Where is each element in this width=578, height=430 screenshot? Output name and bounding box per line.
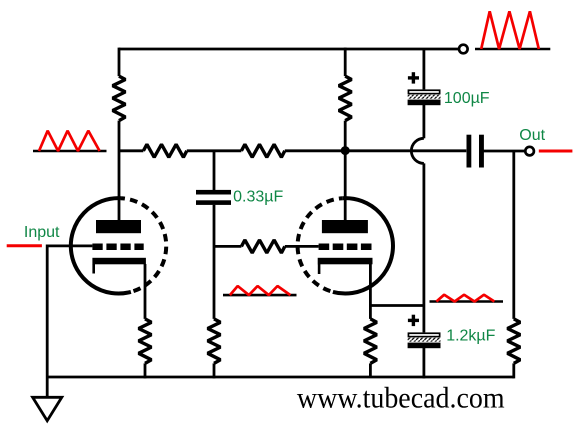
svg-text:1.2kµF: 1.2kµF: [446, 328, 495, 345]
svg-text:0.33µF: 0.33µF: [233, 189, 283, 206]
svg-text:www.tubecad.com: www.tubecad.com: [297, 382, 505, 415]
svg-text:Input: Input: [24, 224, 60, 241]
svg-text:100µF: 100µF: [444, 90, 490, 107]
svg-text:Out: Out: [519, 127, 545, 144]
